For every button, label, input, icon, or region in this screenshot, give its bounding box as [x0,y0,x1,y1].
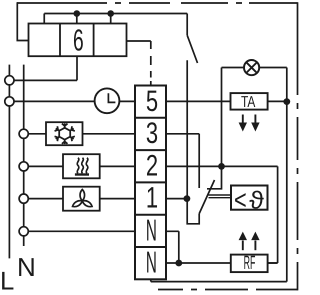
svg-text:N: N [17,252,36,282]
svg-text:TA: TA [241,94,256,111]
svg-text:N: N [146,246,157,280]
svg-text:L: L [0,268,14,295]
svg-text:1: 1 [146,182,158,215]
svg-text:3: 3 [146,117,158,150]
svg-text:<: < [234,184,247,215]
svg-text:ϑ: ϑ [249,187,264,214]
svg-text:2: 2 [146,149,158,182]
svg-text:N: N [146,213,157,247]
svg-text:RF: RF [244,253,256,274]
svg-text:6: 6 [73,24,84,58]
svg-text:5: 5 [146,85,158,118]
